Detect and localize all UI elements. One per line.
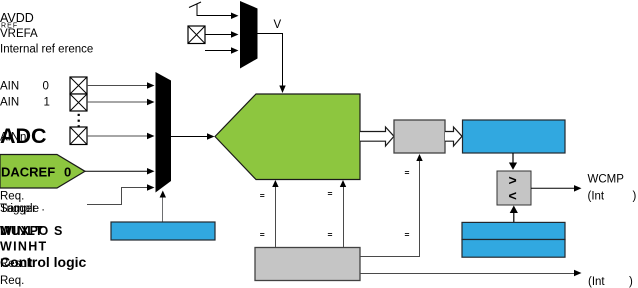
pin box AIN1 bbox=[70, 94, 87, 111]
svg-text:n: n bbox=[20, 132, 26, 144]
wire control to ADC (right) bbox=[343, 186, 345, 247]
pin box VREFA bbox=[188, 26, 205, 44]
wire mux to ADC core bbox=[171, 136, 208, 138]
svg-text:Req.: Req. bbox=[0, 275, 24, 287]
wire trigger to mux bottom bbox=[87, 188, 148, 205]
svg-text:0: 0 bbox=[64, 165, 71, 180]
svg-text:>: > bbox=[509, 172, 517, 188]
pin box AINn bbox=[70, 127, 87, 145]
svg-text:0: 0 bbox=[43, 81, 49, 93]
svg-text:(Int: (Int bbox=[588, 276, 605, 288]
svg-text:AIN: AIN bbox=[0, 97, 19, 109]
svg-text:WCMP: WCMP bbox=[588, 174, 625, 186]
mux MUXPOS (left) bbox=[156, 72, 172, 193]
svg-text:=: = bbox=[328, 188, 333, 198]
svg-text:Result: Result bbox=[0, 258, 33, 270]
window comparator (gray) bbox=[497, 171, 531, 205]
svg-text:=: = bbox=[405, 230, 410, 240]
svg-text:(Int: (Int bbox=[588, 191, 605, 203]
mux VREF (top) bbox=[240, 1, 258, 69]
wire AINn to mux bbox=[87, 135, 148, 137]
block arrow ADC to formatter bbox=[360, 127, 394, 146]
register WINHT (blue) bbox=[462, 240, 565, 258]
wire MUXPOS register to mux bbox=[162, 197, 164, 222]
wire AIN0 to mux bbox=[87, 85, 148, 87]
wire WINLT/WINHT to comparator bbox=[513, 212, 515, 222]
svg-text:=: = bbox=[328, 230, 333, 240]
svg-text:WINHT: WINHT bbox=[0, 240, 47, 254]
svg-text:): ) bbox=[629, 276, 633, 288]
svg-text:<: < bbox=[509, 188, 517, 204]
svg-text:.: . bbox=[42, 202, 45, 214]
svg-text:Internal ref erence: Internal ref erence bbox=[0, 44, 93, 56]
svg-text:=: = bbox=[260, 191, 265, 201]
wire VREFA to top mux bbox=[205, 34, 232, 36]
block arrow formatter to RESULT bbox=[445, 127, 462, 146]
svg-text:Trigger: Trigger bbox=[0, 203, 36, 215]
wire control to result formatter bbox=[360, 160, 420, 257]
wire AVDD to top mux bbox=[189, 2, 232, 16]
dotted ellipsis between pin boxes bbox=[78, 114, 80, 128]
ADC core (green pentagon) bbox=[215, 94, 360, 180]
svg-text:1: 1 bbox=[44, 97, 50, 109]
result formatter block (gray) bbox=[394, 120, 445, 153]
svg-text:=: = bbox=[260, 230, 265, 240]
svg-text:AIN: AIN bbox=[0, 81, 19, 93]
svg-text:AIN: AIN bbox=[0, 132, 19, 144]
svg-text:=: = bbox=[405, 167, 410, 177]
svg-text:Req.: Req. bbox=[0, 191, 24, 203]
wire DACREF to mux bbox=[85, 170, 148, 172]
pin box AIN0 bbox=[70, 77, 87, 94]
svg-text:WINLT: WINLT bbox=[0, 224, 44, 238]
svg-text:S: S bbox=[54, 224, 62, 238]
register RESULT (blue) bbox=[463, 120, 566, 153]
block DACREF0 (green tag) bbox=[0, 155, 85, 189]
svg-text:DACREF: DACREF bbox=[1, 165, 55, 180]
wire mux VREF output to ADC top bbox=[258, 34, 283, 87]
control logic block (gray) bbox=[255, 248, 360, 281]
wire Internal reference to top mux bbox=[205, 50, 232, 52]
wire RESULT to comparator bbox=[512, 153, 514, 163]
register WINLT (blue) bbox=[462, 222, 565, 239]
wire RESRDY interrupt bbox=[360, 273, 575, 275]
svg-text:VREFA: VREFA bbox=[0, 28, 38, 40]
wire comparator to WCMP bbox=[531, 187, 575, 189]
wire control to ADC (left) bbox=[275, 186, 277, 247]
wire AIN1 to mux bbox=[87, 101, 148, 103]
svg-text:): ) bbox=[633, 191, 637, 203]
register MUXPOS (blue) bbox=[111, 222, 215, 240]
svg-text:V: V bbox=[274, 19, 282, 31]
